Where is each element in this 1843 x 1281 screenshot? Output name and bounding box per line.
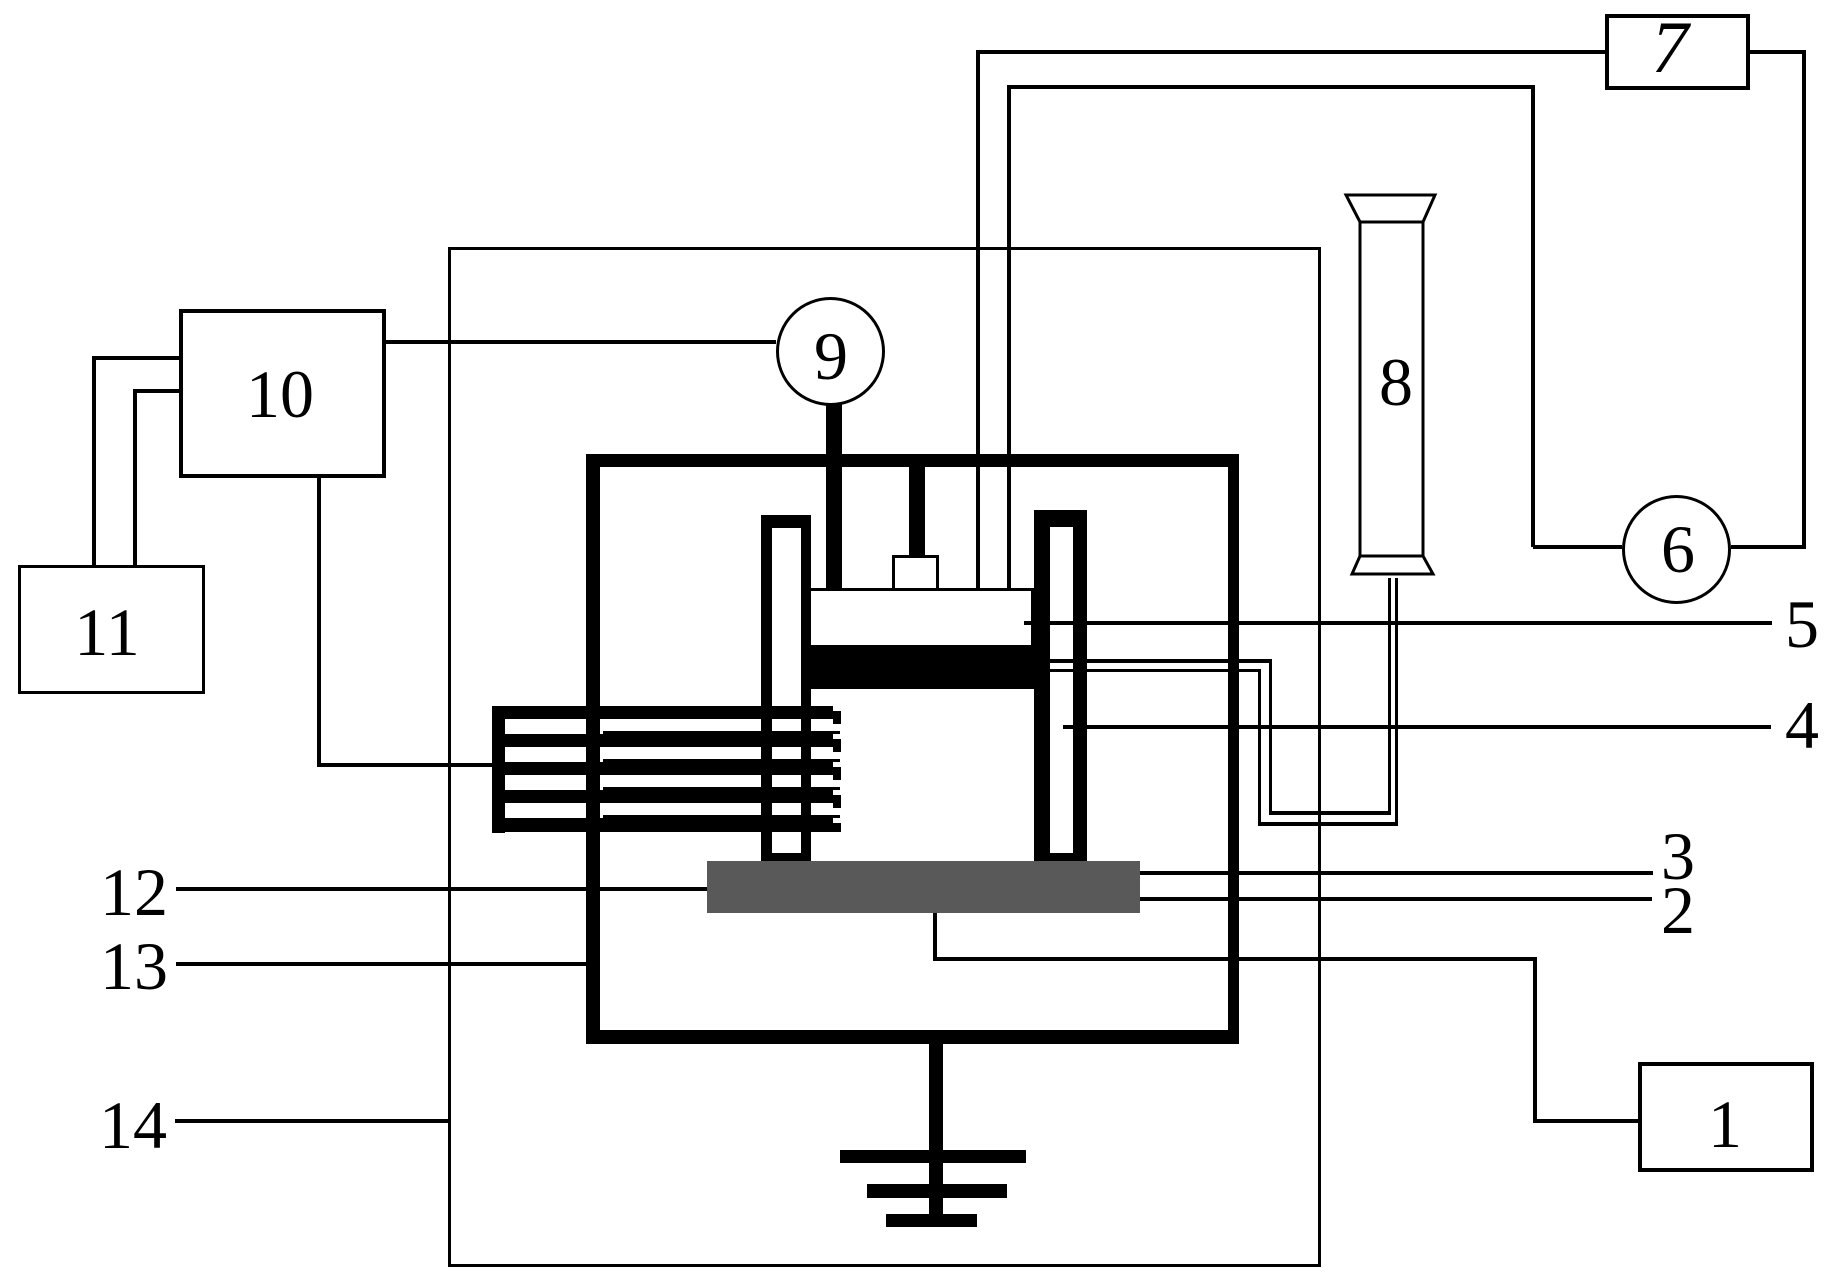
right support column 4 bbox=[1034, 510, 1087, 861]
label 14 bbox=[99, 1124, 167, 1126]
label 3 bbox=[1661, 855, 1695, 857]
leader line 13 bbox=[176, 962, 599, 966]
label 4 bbox=[1785, 724, 1819, 726]
box 1 bbox=[1638, 1062, 1814, 1172]
heater coil end nubs bbox=[833, 711, 841, 724]
label 12 bbox=[100, 891, 168, 893]
shower electrode band bbox=[808, 645, 1034, 689]
wire box10 to box11 inner bbox=[133, 389, 179, 393]
leader line 14 bbox=[175, 1119, 450, 1123]
wire box10 to box11 outer bbox=[92, 356, 179, 360]
susceptor plate 3/2 bbox=[707, 861, 1140, 913]
wire box10 to gauge 9 bbox=[386, 340, 776, 344]
label 10 bbox=[246, 393, 314, 395]
label 8 bbox=[1379, 381, 1413, 383]
gas pipe from column 8 to electrode bbox=[1034, 659, 1272, 663]
insulator block bbox=[892, 555, 939, 591]
gauge circle 9 bbox=[776, 297, 885, 406]
box 11 bbox=[18, 565, 205, 694]
leader line 2 bbox=[1140, 897, 1652, 901]
leader line 12 bbox=[176, 887, 707, 891]
label 6 bbox=[1661, 548, 1695, 550]
label 1 bbox=[1708, 1123, 1742, 1125]
wire from box7 into chamber bbox=[976, 50, 1605, 54]
shaft from chamber lid bbox=[909, 467, 925, 555]
heater coil 12 : left frame bbox=[492, 706, 505, 833]
label 5 bbox=[1785, 623, 1819, 625]
heater coil thin return lines bbox=[603, 731, 840, 734]
label 2 bbox=[1661, 909, 1695, 911]
label 13 bbox=[100, 965, 168, 967]
wire from pump6 into chamber bbox=[1007, 85, 1533, 89]
top electrode plate 5 bbox=[808, 588, 1034, 647]
label 11 bbox=[74, 631, 139, 633]
pump circle 6 bbox=[1622, 495, 1731, 604]
label 7 bbox=[1652, 47, 1689, 49]
leader line 5 bbox=[1024, 621, 1772, 625]
heater coil bars bbox=[492, 706, 833, 719]
chamber wall 13 bbox=[586, 454, 1239, 1044]
leader line 4 bbox=[1063, 725, 1771, 729]
box 10 bbox=[179, 309, 386, 478]
wire susceptor to box 1 bbox=[933, 913, 937, 961]
gas column 8 bbox=[1340, 190, 1440, 585]
stem from gauge 9 to top plate bbox=[826, 404, 842, 591]
left support column bbox=[761, 515, 811, 861]
wire box10 to heater coil bbox=[317, 478, 321, 766]
ground stem bbox=[929, 1044, 943, 1225]
wire box7 to pump6 bbox=[1750, 50, 1806, 54]
ground bars bbox=[840, 1150, 1026, 1163]
label 9 bbox=[814, 355, 848, 357]
leader line 3 bbox=[1140, 871, 1653, 875]
outer enclosure box 14 bbox=[448, 247, 1321, 1267]
box 7 bbox=[1605, 14, 1750, 90]
